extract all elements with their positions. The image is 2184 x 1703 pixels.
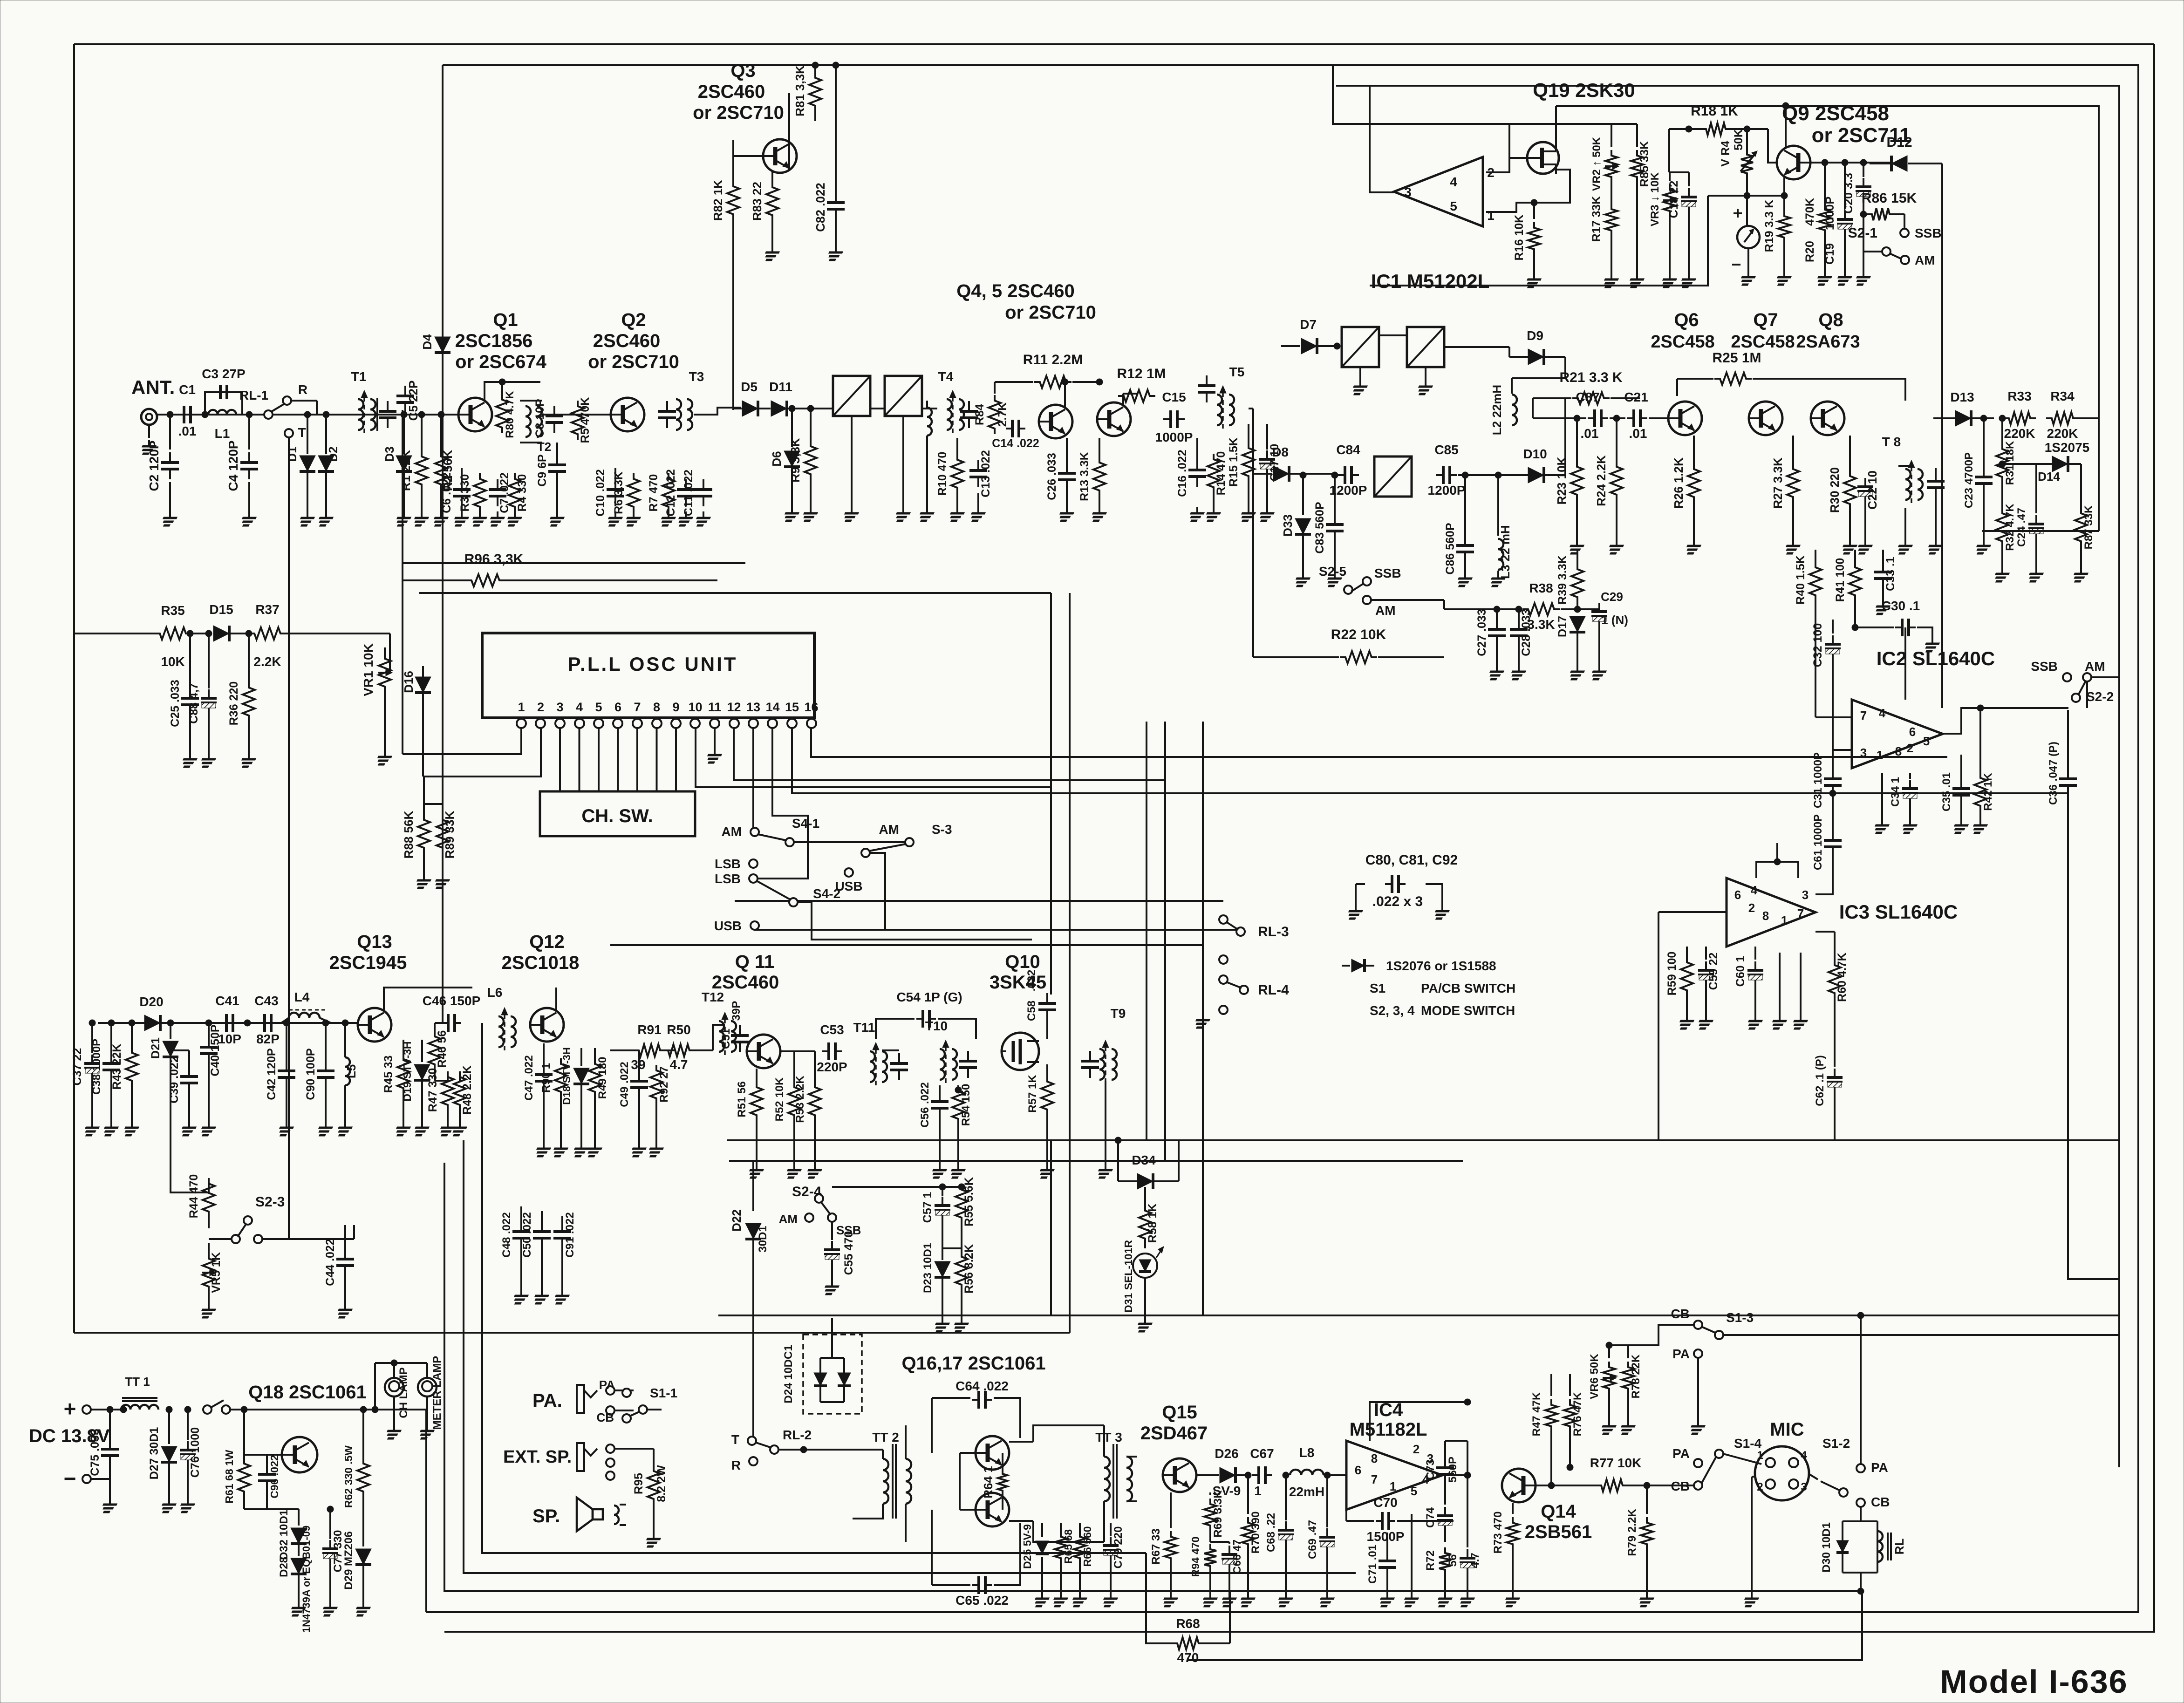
svg-text:C18 22: C18 22 bbox=[1667, 181, 1680, 218]
capacitor C61 1000P bbox=[1832, 830, 1834, 840]
svg-text:Q13: Q13 bbox=[357, 932, 392, 952]
capacitor C62 .1(P) bbox=[1834, 1069, 1836, 1077]
wire ic2 in7 bbox=[1815, 678, 1816, 717]
lamp CH LAMP bbox=[393, 1363, 395, 1378]
svg-text:C76 1000: C76 1000 bbox=[189, 1427, 202, 1478]
svg-text:8: 8 bbox=[1371, 1451, 1378, 1465]
svg-text:C88 4,7: C88 4,7 bbox=[187, 683, 200, 724]
cluster R51 R52 R53 bbox=[756, 1069, 758, 1082]
capacitor C83 560P bbox=[1334, 475, 1336, 515]
resistor R11 2.2M bbox=[994, 382, 996, 394]
svg-text:R16 10K: R16 10K bbox=[1513, 215, 1526, 261]
wire q14 coll bbox=[1536, 1485, 1551, 1486]
svg-text:PA: PA bbox=[599, 1378, 615, 1392]
svg-text:SSB: SSB bbox=[1915, 226, 1942, 240]
resistor R64 1 bbox=[998, 1468, 1007, 1496]
wire d23 r56 join bbox=[942, 1247, 962, 1249]
wire bus y1996 bbox=[754, 929, 1241, 931]
svg-text:C56 .022: C56 .022 bbox=[919, 1082, 931, 1127]
resistor R61 68 1W bbox=[243, 1455, 245, 1458]
svg-text:50K: 50K bbox=[1732, 129, 1745, 150]
svg-text:C66 47: C66 47 bbox=[1231, 1540, 1243, 1574]
svg-text:C55 470: C55 470 bbox=[842, 1231, 855, 1275]
svg-text:C84: C84 bbox=[1336, 443, 1360, 457]
svg-text:4: 4 bbox=[1450, 175, 1457, 189]
capacitor C15 1000P bbox=[1163, 418, 1171, 420]
svg-text:R12 1M: R12 1M bbox=[1117, 366, 1166, 381]
cluster C56 R54 bbox=[939, 1085, 941, 1092]
svg-text:+: + bbox=[64, 1396, 76, 1421]
svg-text:R26 1.2K: R26 1.2K bbox=[1672, 457, 1686, 509]
wire q16 q17 base bbox=[960, 1452, 976, 1454]
capacitor C1 .01 bbox=[176, 414, 184, 416]
svg-text:C34 1: C34 1 bbox=[1889, 777, 1902, 807]
wire Q3 base bbox=[733, 155, 763, 157]
wire s3 route bbox=[870, 853, 885, 930]
crystal filter F2 bbox=[885, 376, 922, 416]
svg-text:LSB: LSB bbox=[715, 857, 741, 871]
svg-text:2: 2 bbox=[1413, 1442, 1420, 1456]
diode D19 STV-3H bbox=[421, 1040, 423, 1062]
svg-text:SP.: SP. bbox=[532, 1506, 560, 1526]
svg-text:T9: T9 bbox=[1111, 1006, 1126, 1021]
svg-text:VR2 ↑ 50K: VR2 ↑ 50K bbox=[1590, 136, 1603, 191]
wire Q3 collector bbox=[788, 93, 790, 141]
resistor R73 470 bbox=[1512, 1503, 1514, 1514]
block CH. SW. bbox=[540, 791, 695, 836]
resistor R22 10K bbox=[1340, 651, 1377, 663]
svg-text:C29: C29 bbox=[1601, 590, 1623, 604]
svg-text:M51182L: M51182L bbox=[1350, 1419, 1427, 1440]
svg-text:.01: .01 bbox=[178, 424, 197, 438]
resistor R30 220 bbox=[1849, 436, 1851, 470]
capacitor C69 .47 bbox=[1326, 1475, 1328, 1527]
capacitor C46 150P bbox=[442, 1022, 448, 1024]
svg-text:R4 330: R4 330 bbox=[516, 474, 529, 512]
svg-text:39P: 39P bbox=[730, 1001, 743, 1021]
svg-text:Q7: Q7 bbox=[1753, 310, 1778, 330]
svg-text:Q12: Q12 bbox=[529, 932, 565, 952]
transistor Q6 bbox=[1668, 402, 1702, 435]
svg-text:R60 4.7K: R60 4.7K bbox=[1836, 953, 1849, 1002]
svg-text:R62 330 .5W: R62 330 .5W bbox=[342, 1445, 355, 1508]
diode D20 bbox=[144, 1015, 160, 1031]
inductor L4 bbox=[289, 1013, 320, 1018]
cluster R72 56 4.7 bbox=[1439, 1547, 1451, 1575]
svg-text:C7 .022: C7 .022 bbox=[498, 472, 511, 513]
grounds ic3 bbox=[1779, 953, 1781, 1015]
svg-text:or 2SC674: or 2SC674 bbox=[455, 352, 546, 372]
svg-text:R81 3,3K: R81 3,3K bbox=[793, 65, 807, 116]
transistor Q2 bbox=[611, 398, 644, 431]
svg-text:R66 560: R66 560 bbox=[1081, 1526, 1093, 1567]
svg-text:C69 .47: C69 .47 bbox=[1306, 1520, 1319, 1559]
svg-text:R: R bbox=[731, 1458, 741, 1472]
svg-text:T: T bbox=[298, 425, 306, 440]
svg-text:V R4: V R4 bbox=[1719, 141, 1732, 167]
svg-text:RL: RL bbox=[1892, 1539, 1906, 1555]
capacitor C74 bbox=[1444, 1507, 1446, 1516]
resistor R68 470 bbox=[1172, 1637, 1204, 1649]
wire filt join bbox=[1249, 408, 1253, 409]
svg-text:D9: D9 bbox=[1527, 328, 1543, 343]
svg-text:USB: USB bbox=[835, 879, 862, 893]
svg-text:R43 22K: R43 22K bbox=[110, 1044, 123, 1090]
svg-text:C86 560P: C86 560P bbox=[1444, 523, 1457, 574]
svg-text:R69 3.3K: R69 3.3K bbox=[1212, 1490, 1224, 1538]
svg-text:R7 470: R7 470 bbox=[647, 474, 660, 512]
wire y420 row bbox=[1708, 195, 1784, 197]
svg-text:C51: C51 bbox=[720, 1029, 732, 1049]
svg-text:R92 27: R92 27 bbox=[658, 1066, 670, 1102]
svg-text:−: − bbox=[1731, 255, 1741, 274]
svg-text:R65 68: R65 68 bbox=[1062, 1529, 1074, 1564]
diode D16 bbox=[415, 677, 431, 693]
svg-text:L4: L4 bbox=[294, 990, 310, 1004]
svg-text:R27 3.3K: R27 3.3K bbox=[1771, 457, 1785, 509]
svg-text:T 8: T 8 bbox=[1882, 435, 1901, 449]
diode D10 bbox=[1528, 467, 1544, 483]
capacitor C9 6P bbox=[556, 455, 558, 465]
svg-text:R90 1: R90 1 bbox=[540, 1063, 553, 1093]
capacitor C59 22 bbox=[1705, 961, 1707, 970]
svg-text:Q14: Q14 bbox=[1541, 1501, 1576, 1522]
capacitor C41 10P bbox=[220, 1022, 226, 1024]
svg-text:1: 1 bbox=[518, 700, 525, 714]
svg-text:C33 .1: C33 .1 bbox=[1884, 557, 1897, 591]
capacitor C20 3.3 bbox=[1863, 163, 1864, 177]
diode D5 bbox=[742, 401, 758, 416]
svg-text:R34: R34 bbox=[2050, 389, 2075, 403]
resistor R70 390 bbox=[1247, 1475, 1249, 1514]
resistor R80 4.7K bbox=[501, 382, 503, 394]
svg-text:C60 1: C60 1 bbox=[1734, 956, 1747, 987]
svg-text:220K: 220K bbox=[2047, 426, 2078, 441]
inductor T4 in bbox=[927, 408, 932, 436]
svg-text:C49 .022: C49 .022 bbox=[618, 1062, 631, 1107]
capacitor C76 1000 bbox=[187, 1410, 189, 1440]
wires PLL pins to CH SW bbox=[559, 728, 561, 791]
svg-text:2: 2 bbox=[1907, 741, 1913, 755]
wire right loop 3 bbox=[1336, 86, 2119, 1467]
resistor R37 2.2K bbox=[249, 627, 286, 640]
svg-text:R47 47K: R47 47K bbox=[1530, 1392, 1543, 1436]
svg-text:RL-4: RL-4 bbox=[1258, 982, 1289, 998]
svg-text:Q18 2SC1061: Q18 2SC1061 bbox=[248, 1382, 367, 1403]
wire q19 src bbox=[1533, 170, 1570, 203]
diode D2 bbox=[325, 415, 327, 454]
svg-text:R18 1K: R18 1K bbox=[1691, 103, 1738, 119]
svg-text:C23 4700P: C23 4700P bbox=[1963, 452, 1975, 508]
capacitor C27 .033 bbox=[1496, 609, 1498, 620]
capacitor C71 .01 bbox=[1386, 1533, 1388, 1551]
svg-text:Q2: Q2 bbox=[621, 310, 646, 330]
resistor R21 3.3K bbox=[1572, 392, 1610, 404]
svg-text:R56 8.2K: R56 8.2K bbox=[962, 1244, 976, 1294]
diode D12 bbox=[1891, 156, 1907, 171]
svg-text:L5: L5 bbox=[344, 1064, 358, 1078]
capacitor C96 .022 bbox=[266, 1464, 268, 1474]
transformer TT1 bbox=[121, 1405, 158, 1410]
svg-text:R25 1M: R25 1M bbox=[1712, 350, 1761, 366]
svg-text:3: 3 bbox=[1404, 185, 1412, 199]
resistor R55 5.6K bbox=[961, 1184, 962, 1187]
transformer T2 bbox=[526, 406, 531, 437]
svg-text:D18 STV-3H: D18 STV-3H bbox=[561, 1047, 573, 1105]
svg-text:2SC458: 2SC458 bbox=[1731, 332, 1795, 352]
wire to T1 bbox=[291, 400, 317, 402]
svg-text:1000P: 1000P bbox=[1823, 197, 1836, 230]
transformer TT2 bbox=[892, 1444, 894, 1519]
wire bottom relay line bbox=[1188, 1591, 1862, 1660]
capacitor C60 1 bbox=[1754, 961, 1756, 970]
capacitor C51 39P bbox=[739, 1025, 741, 1035]
wire mic pin2 bbox=[1751, 1477, 1753, 1593]
svg-text:R87 33K: R87 33K bbox=[2082, 505, 2095, 549]
svg-text:D2: D2 bbox=[326, 446, 340, 462]
transformer T3 tank bbox=[676, 399, 681, 430]
svg-text:5: 5 bbox=[1411, 1484, 1417, 1498]
svg-text:D20: D20 bbox=[139, 995, 163, 1009]
svg-text:Q1: Q1 bbox=[493, 310, 518, 330]
svg-text:1200P: 1200P bbox=[1428, 483, 1466, 497]
capacitor C90 100P bbox=[325, 1023, 327, 1061]
svg-text:6: 6 bbox=[1734, 888, 1741, 902]
svg-text:2: 2 bbox=[537, 700, 544, 714]
svg-text:15: 15 bbox=[785, 700, 799, 714]
svg-text:C67: C67 bbox=[1250, 1446, 1274, 1461]
resistor R69 3.3K bbox=[1209, 1492, 1211, 1495]
svg-text:R52 10K: R52 10K bbox=[773, 1077, 786, 1121]
svg-text:TT 1: TT 1 bbox=[125, 1375, 150, 1389]
transistor Q14 bbox=[1502, 1469, 1536, 1502]
capacitor C8 10P bbox=[553, 406, 555, 416]
resistor R1 22K bbox=[421, 415, 423, 451]
diode D28 bbox=[291, 1558, 307, 1574]
svg-text:2: 2 bbox=[1757, 1481, 1763, 1493]
transistor Q7 bbox=[1749, 402, 1782, 435]
svg-text:R88 56K: R88 56K bbox=[402, 811, 416, 858]
resistor R86 15K bbox=[1866, 208, 1895, 220]
diode D7 bbox=[1301, 338, 1317, 354]
diode D33 bbox=[1302, 475, 1304, 515]
svg-text:10K: 10K bbox=[161, 654, 184, 669]
svg-text:R58 1K: R58 1K bbox=[1146, 1204, 1159, 1243]
wire bus y2824 bbox=[718, 1315, 2119, 1316]
wire vert x2256 bbox=[1050, 593, 1052, 995]
resistor R23 10K bbox=[1576, 418, 1578, 461]
svg-text:R47 330: R47 330 bbox=[426, 1068, 439, 1112]
svg-text:R35: R35 bbox=[161, 603, 184, 618]
wire bus y2029 bbox=[610, 944, 1203, 946]
svg-text:LSB: LSB bbox=[715, 872, 741, 886]
svg-text:CB: CB bbox=[596, 1410, 614, 1424]
svg-text:−: − bbox=[64, 1466, 76, 1491]
cluster C48 C50 C91 bbox=[520, 1206, 522, 1222]
svg-text:C42 120P: C42 120P bbox=[265, 1048, 278, 1100]
diode D32 10D1 bbox=[298, 1509, 300, 1526]
resistor R42 1K bbox=[1974, 772, 1986, 811]
diode D22 30D1 bbox=[752, 1161, 754, 1211]
svg-text:CB: CB bbox=[1871, 1495, 1890, 1509]
legend diode bbox=[1351, 959, 1365, 972]
capacitor C40 150P bbox=[208, 1023, 210, 1037]
svg-text:1: 1 bbox=[1757, 1449, 1763, 1462]
cluster C49 R92 bbox=[638, 1065, 640, 1071]
svg-text:R10 470: R10 470 bbox=[936, 452, 949, 496]
wire q12 coll bbox=[555, 988, 557, 1010]
speaker SP bbox=[577, 1498, 593, 1531]
svg-text:L3 22 mH: L3 22 mH bbox=[1498, 525, 1512, 579]
svg-text:R95: R95 bbox=[632, 1473, 645, 1494]
diode D31 SEL-101R bbox=[1133, 1253, 1157, 1278]
svg-text:RL-1: RL-1 bbox=[239, 388, 268, 402]
svg-text:D8: D8 bbox=[1272, 445, 1289, 459]
wire ant row bbox=[157, 414, 461, 416]
wire rl3 down bbox=[1202, 992, 1204, 1015]
wire vert x2582 bbox=[1202, 722, 1204, 1315]
svg-text:USB: USB bbox=[714, 919, 742, 933]
diode D23 10D1 bbox=[935, 1261, 950, 1277]
svg-text:R: R bbox=[298, 382, 307, 397]
svg-text:S2-1: S2-1 bbox=[1848, 225, 1877, 241]
wire bus A bbox=[482, 1023, 1146, 1553]
capacitor C65 .022 bbox=[972, 1584, 979, 1586]
transformer T4 bbox=[947, 399, 952, 430]
svg-text:P.L.L OSC UNIT: P.L.L OSC UNIT bbox=[568, 653, 738, 675]
resistor R50 4.7 bbox=[662, 1044, 695, 1056]
svg-text:VR3 ↓ 10K: VR3 ↓ 10K bbox=[1649, 172, 1661, 226]
svg-text:R57 1K: R57 1K bbox=[1026, 1075, 1039, 1113]
resistor R45 33 bbox=[403, 1040, 404, 1055]
svg-text:C21: C21 bbox=[1624, 390, 1648, 404]
capacitor C33 .1 bbox=[1882, 562, 1884, 572]
resistor R40 1.5K bbox=[1815, 550, 1816, 564]
capacitor C25 .033 bbox=[189, 634, 191, 688]
svg-text:D12: D12 bbox=[1886, 135, 1912, 150]
svg-text:R36 220: R36 220 bbox=[227, 681, 240, 726]
svg-text:C54 1P (G): C54 1P (G) bbox=[896, 990, 962, 1004]
wire bus y2492 bbox=[729, 1160, 1463, 1162]
resistor R89 33K bbox=[442, 804, 444, 814]
wire s42 route bbox=[798, 902, 1032, 940]
resistor R78 22K bbox=[1627, 1345, 1629, 1358]
svg-text:4: 4 bbox=[576, 700, 583, 714]
svg-text:+: + bbox=[1733, 204, 1742, 223]
capacitor C58 .022 bbox=[1046, 993, 1048, 1003]
svg-text:or 2SC710: or 2SC710 bbox=[1005, 302, 1096, 323]
capacitor C4 120P bbox=[248, 415, 250, 450]
svg-text:8: 8 bbox=[1895, 744, 1902, 758]
svg-text:C31 1000P: C31 1000P bbox=[1812, 752, 1824, 808]
svg-text:D16: D16 bbox=[402, 671, 416, 693]
wire q19 gate bbox=[1509, 157, 1527, 159]
jack PA bbox=[577, 1385, 584, 1413]
inductor L2 22mH bbox=[1512, 395, 1517, 425]
resistor R33 220K bbox=[2003, 412, 2036, 424]
border outer frame left+top bbox=[73, 44, 75, 1333]
wire vert x2461 bbox=[1146, 722, 1147, 1140]
svg-text:D34: D34 bbox=[1132, 1153, 1156, 1167]
capacitor T1 tank bbox=[387, 401, 389, 411]
resistor R26 1.2K bbox=[1693, 436, 1695, 463]
capacitor C84 1200P bbox=[1338, 474, 1345, 476]
resistor R27 3.3K bbox=[1792, 436, 1794, 463]
transformer T10 bbox=[940, 1049, 945, 1080]
capacitor C42 120P bbox=[286, 1023, 287, 1061]
svg-text:R73 470: R73 470 bbox=[1492, 1512, 1504, 1554]
transistor Q9 bbox=[1777, 146, 1810, 179]
svg-text:R19 3.3 K: R19 3.3 K bbox=[1763, 200, 1776, 252]
resistor R24 2.2K bbox=[1616, 418, 1618, 461]
resistor R12 1M bbox=[1118, 390, 1155, 402]
cluster C37 C38 R43 bbox=[91, 1023, 93, 1053]
svg-text:VR6 50K: VR6 50K bbox=[1588, 1354, 1601, 1399]
svg-text:C39 .022: C39 .022 bbox=[168, 1056, 181, 1103]
svg-text:R41 100: R41 100 bbox=[1834, 558, 1847, 602]
resistor R47b 330 bbox=[442, 1071, 454, 1110]
svg-text:C85: C85 bbox=[1434, 443, 1458, 457]
svg-text:3: 3 bbox=[556, 700, 563, 714]
capacitor C23 4700P bbox=[1983, 418, 1985, 467]
capacitor C64 .022 bbox=[972, 1399, 979, 1401]
wire bus y2448 bbox=[727, 1139, 2119, 1141]
svg-text:IC2 SL1640C: IC2 SL1640C bbox=[1877, 647, 1995, 669]
potentiometer VR6 50K bbox=[1608, 1345, 1610, 1358]
svg-text:AM: AM bbox=[721, 824, 742, 839]
svg-text:C90 100P: C90 100P bbox=[304, 1048, 317, 1100]
svg-text:IC1 M51202L: IC1 M51202L bbox=[1371, 270, 1489, 292]
IC2 triangle bbox=[1852, 700, 1943, 768]
inductor L8 22mH bbox=[1290, 1470, 1324, 1475]
svg-text:C19: C19 bbox=[1823, 243, 1836, 265]
ground ic2 pin1 bbox=[1881, 773, 1883, 820]
crystal filter F3 bbox=[1342, 327, 1379, 367]
capacitor C79 220 bbox=[1110, 1523, 1112, 1536]
svg-text:D22: D22 bbox=[730, 1209, 744, 1232]
svg-text:D7: D7 bbox=[1300, 317, 1317, 332]
resistor R17 33K bbox=[1605, 204, 1618, 236]
svg-text:C26 .033: C26 .033 bbox=[1045, 453, 1058, 500]
svg-text:METER LAMP: METER LAMP bbox=[431, 1356, 444, 1430]
capacitor C39 .022 bbox=[188, 1062, 190, 1067]
wire lamp feed bbox=[374, 1363, 376, 1410]
cluster C16 R14 bbox=[1196, 438, 1198, 460]
capacitor C68 .22 bbox=[1285, 1475, 1287, 1520]
wire vert x2501 bbox=[1164, 722, 1166, 1161]
svg-text:R14 470: R14 470 bbox=[1215, 451, 1228, 496]
svg-text:RL-2: RL-2 bbox=[783, 1428, 812, 1442]
transistor Q8 bbox=[1811, 402, 1844, 435]
capacitor C67 1 bbox=[1252, 1474, 1259, 1476]
svg-text:Q9 2SC458: Q9 2SC458 bbox=[1782, 102, 1889, 125]
svg-text:D29 MZ206: D29 MZ206 bbox=[342, 1531, 355, 1589]
svg-text:220K: 220K bbox=[2004, 426, 2035, 441]
jack EXT SP bbox=[577, 1443, 584, 1471]
cluster C47 R90 D18 R49 bbox=[543, 1043, 545, 1065]
svg-text:2SA673: 2SA673 bbox=[1796, 332, 1860, 352]
capacitor C77 330 bbox=[329, 1509, 331, 1539]
resistor R20 470K bbox=[1824, 163, 1826, 204]
svg-text:SSB: SSB bbox=[2031, 659, 2058, 674]
transistor Q5 bbox=[1097, 402, 1131, 436]
wire right outer loop bbox=[444, 44, 2154, 1632]
svg-text:R20: R20 bbox=[1803, 241, 1816, 262]
svg-text:PA/CB SWITCH: PA/CB SWITCH bbox=[1421, 981, 1515, 995]
svg-text:R24 2.2K: R24 2.2K bbox=[1594, 455, 1608, 506]
resistor R87 33K bbox=[2080, 464, 2082, 508]
transistor Q11 bbox=[747, 1035, 780, 1068]
